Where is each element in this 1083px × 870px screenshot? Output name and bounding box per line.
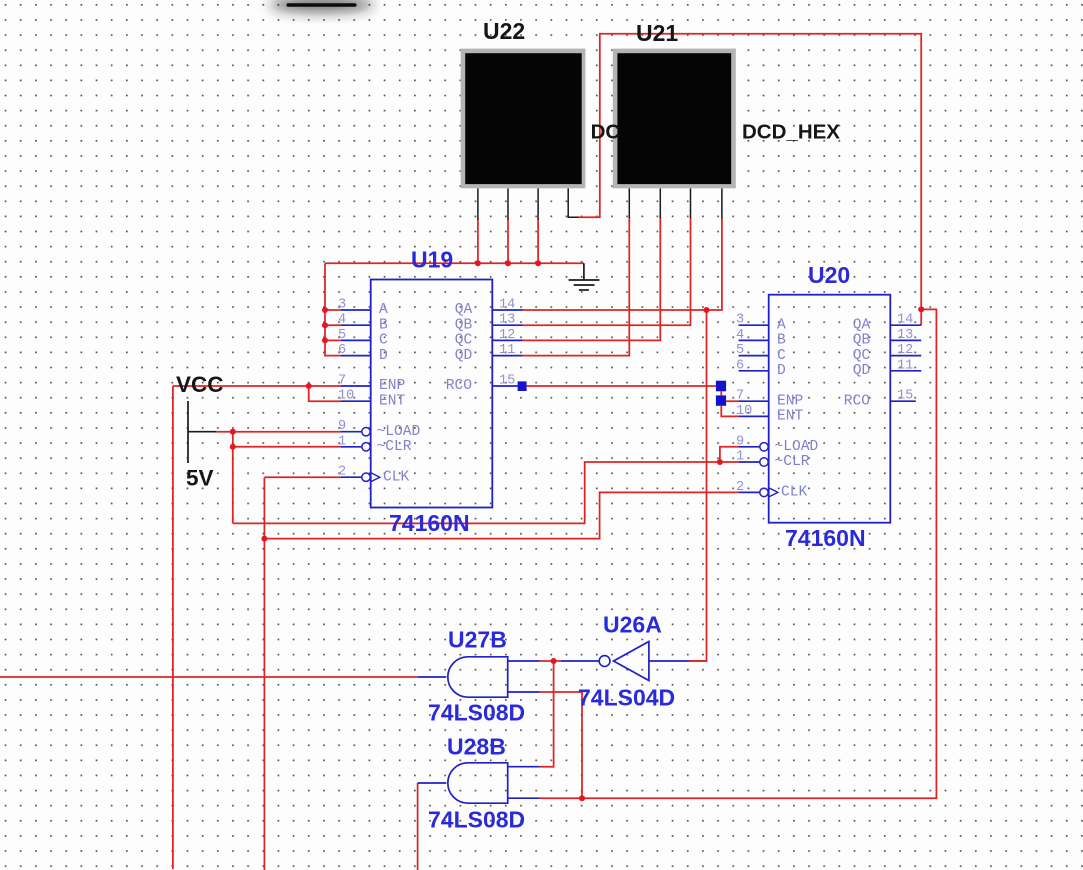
svg-text:6: 6: [338, 343, 346, 358]
svg-text:11: 11: [897, 358, 913, 373]
svg-text:11: 11: [499, 343, 515, 358]
U19 ~LOAD bubble: [362, 428, 370, 436]
U20 pin 10 ENT stub: [739, 415, 769, 417]
svg-text:7: 7: [338, 374, 346, 389]
svg-text:13: 13: [499, 313, 515, 328]
wire branch to U20 ~LOAD: [720, 447, 739, 462]
svg-text:14: 14: [499, 298, 515, 313]
svg-text:B: B: [379, 317, 388, 333]
counter U19 74160N body: [371, 280, 493, 508]
svg-text:QA: QA: [455, 302, 473, 318]
wire to U19 ~CLR: [233, 446, 341, 448]
U19 pin 5 C stub: [341, 339, 371, 341]
svg-text:15: 15: [499, 374, 515, 389]
junction U26A output node: [551, 658, 557, 664]
U20 pin 5 C stub: [739, 355, 769, 357]
U20 pin 1 ~CLR stub: [739, 461, 760, 463]
display U22 pin 1 lead: [477, 188, 479, 219]
wire U28B output down to bottom edge: [417, 783, 419, 870]
svg-text:5: 5: [338, 328, 346, 343]
svg-text:ENP: ENP: [777, 393, 803, 409]
svg-text:3: 3: [736, 313, 744, 328]
net connector square U20 lower: [716, 395, 726, 405]
svg-text:U27B: U27B: [448, 627, 507, 653]
svg-text:U21: U21: [636, 20, 678, 46]
svg-text:QA: QA: [853, 317, 871, 333]
svg-text:12: 12: [499, 328, 515, 343]
U19 pin 14 QA stub: [492, 309, 522, 311]
svg-text:13: 13: [897, 328, 913, 343]
svg-text:74160N: 74160N: [389, 510, 470, 536]
wire stub to U19 pin C: [325, 339, 341, 341]
svg-text:U19: U19: [411, 247, 453, 273]
svg-text:5V: 5V: [186, 466, 214, 491]
U19 pin 15 RCO stub: [492, 385, 518, 387]
display U22 pin 3 lead: [537, 188, 539, 219]
U19 pin 13 QB stub: [492, 324, 522, 326]
svg-text:A: A: [777, 317, 786, 333]
U19 pin 6 D stub: [341, 355, 371, 357]
U20 pin 7 ENP stub: [739, 400, 769, 402]
U19 pin 2 CLK stub: [341, 476, 362, 478]
svg-text:D: D: [379, 348, 388, 364]
inverter U26A body: [561, 642, 689, 681]
wire U22 pin4 over top to U20 QA: [578, 34, 921, 325]
svg-text:74LS04D: 74LS04D: [578, 685, 675, 711]
and-gate U28B body: [418, 763, 540, 803]
junction QA net branch: [704, 307, 710, 313]
wire branch right from node to lower bus: [540, 309, 937, 798]
junction U20 ~LOAD/~CLR feed: [717, 459, 723, 465]
and-gate U27B body: [418, 657, 540, 697]
net connector square U20 upper: [716, 381, 726, 392]
svg-text:ENT: ENT: [379, 393, 406, 409]
display U21 pin 4 lead: [721, 188, 723, 218]
wire branch to U19 ENT: [309, 386, 341, 401]
svg-text:B: B: [777, 333, 786, 349]
svg-text:74LS08D: 74LS08D: [428, 807, 525, 833]
svg-text:VCC: VCC: [176, 372, 224, 397]
svg-text:QD: QD: [853, 363, 871, 379]
display U22 pin 2 lead: [507, 188, 509, 219]
display U21 pin 3 lead: [690, 188, 692, 218]
wire U22 pin2 to ground bus: [507, 219, 509, 264]
wire U19 QB to U21 pin3: [523, 217, 691, 325]
wire CLK rail down: [263, 477, 265, 870]
ground symbol: [583, 263, 585, 280]
svg-text:4: 4: [338, 313, 346, 328]
U20 pin 12 QC stub: [890, 355, 921, 357]
U20 ~CLR bubble: [760, 458, 768, 466]
display U22 DCD_HEX body: [461, 49, 586, 189]
svg-text:74LS08D: 74LS08D: [428, 700, 525, 726]
svg-text:~CLR: ~CLR: [775, 454, 810, 470]
U20 CLK edge triangle: [769, 488, 778, 497]
wire connector square link: [720, 391, 722, 395]
U20 CLK bubble: [760, 488, 768, 496]
display U21 DCD_HEX body: [613, 49, 736, 189]
svg-text:C: C: [379, 333, 388, 349]
wire junction drop: [232, 432, 234, 524]
U19 pin 4 B stub: [341, 324, 371, 326]
display U21 pin 1 lead: [628, 188, 630, 218]
wire to U19 ~LOAD: [233, 431, 341, 433]
svg-text:7: 7: [736, 389, 744, 404]
junction U19 pin C: [322, 337, 328, 343]
svg-text:~LOAD: ~LOAD: [775, 439, 819, 455]
svg-text:4: 4: [736, 328, 744, 343]
U20 pin 6 D stub: [739, 370, 769, 372]
svg-text:DC: DC: [591, 121, 621, 144]
junction U19 pin A: [322, 307, 328, 313]
svg-text:3: 3: [338, 298, 346, 313]
wire U19 QA to U21 pin4: [523, 217, 722, 310]
U20 pin 3 A stub: [739, 324, 769, 326]
svg-text:D: D: [777, 363, 786, 379]
svg-text:1: 1: [338, 434, 346, 449]
wire VCC symbol to junction: [216, 431, 233, 433]
svg-text:5: 5: [736, 343, 744, 358]
junction U22 pin3/bus: [535, 260, 541, 266]
wire connector to U20 ENP: [726, 400, 739, 402]
wire U19 QC to U21 pin2: [523, 217, 661, 340]
svg-text:DCD_HEX: DCD_HEX: [742, 121, 840, 144]
svg-text:10: 10: [338, 389, 354, 404]
U20 pin 2 CLK stub: [739, 491, 760, 493]
junction CLK rail: [261, 536, 267, 542]
net connector square U19 RCO: [518, 381, 527, 391]
junction U22 pin1/bus: [475, 260, 481, 266]
U19 pin 11 QD stub: [492, 355, 522, 357]
svg-text:QC: QC: [853, 348, 871, 364]
U19 CLK bubble: [362, 473, 370, 481]
U20 pin 9 ~LOAD stub: [739, 446, 760, 448]
wire U19 QD to U21 pin1: [523, 217, 630, 355]
svg-text:QC: QC: [455, 333, 473, 349]
svg-text:2: 2: [736, 480, 744, 495]
U20 pin 4 B stub: [739, 339, 769, 341]
svg-text:14: 14: [897, 313, 913, 328]
svg-text:ENT: ENT: [777, 409, 804, 425]
counter U20 74160N body: [769, 295, 891, 523]
svg-text:6: 6: [736, 358, 744, 373]
svg-text:15: 15: [897, 389, 913, 404]
junction U22 pin2/bus: [505, 260, 511, 266]
junction U19 pin B: [322, 322, 328, 328]
wire CLK link to U20 CLK: [264, 492, 738, 538]
svg-text:U22: U22: [483, 18, 525, 44]
svg-text:74160N: 74160N: [785, 525, 866, 551]
junction VCC/~LOAD: [230, 429, 236, 435]
svg-text:RCO: RCO: [844, 393, 871, 409]
U20 pin 13 QB stub: [890, 339, 921, 341]
wire branch up to U27B input B: [540, 692, 582, 798]
U20 ~LOAD bubble: [760, 443, 768, 451]
svg-text:12: 12: [897, 343, 913, 358]
wire U19 RCO to U20 connector: [527, 385, 716, 387]
svg-text:CLK: CLK: [383, 469, 410, 485]
screen smudge artifact top: [270, 0, 374, 13]
svg-text:9: 9: [736, 434, 744, 449]
display U22 pin 4 lead: [568, 188, 578, 217]
VCC power symbol: [187, 401, 189, 463]
svg-text:QD: QD: [455, 348, 473, 364]
U20 pin 14 QA stub: [890, 324, 921, 326]
svg-text:CLK: CLK: [781, 485, 808, 501]
svg-text:A: A: [379, 302, 388, 318]
U19 pin 1 ~CLR stub: [341, 446, 362, 448]
wire to U19 CLK: [264, 476, 340, 478]
wire long run to U20 ~CLR: [233, 462, 739, 523]
svg-text:2: 2: [338, 465, 346, 480]
svg-text:U26A: U26A: [603, 612, 662, 638]
wire stub to U19 pin B: [325, 324, 341, 326]
wire U22 pin1 to ground bus: [477, 219, 479, 264]
wire QA branch down to U26A input: [689, 310, 706, 661]
svg-text:U20: U20: [808, 262, 850, 288]
U19 pin 3 A stub: [341, 309, 371, 311]
U19 pin 12 QC stub: [492, 339, 522, 341]
junction top right node: [918, 306, 924, 312]
wire ground bus horizontal: [325, 262, 584, 264]
svg-text:~CLR: ~CLR: [377, 439, 412, 455]
U19 pin 7 ENP stub: [341, 385, 371, 387]
svg-text:9: 9: [338, 419, 346, 434]
svg-text:QB: QB: [455, 317, 473, 333]
svg-text:RCO: RCO: [446, 378, 473, 394]
U19 pin 10 ENT stub: [341, 400, 371, 402]
wire U22 pin3 to ground bus: [537, 219, 539, 264]
wire connector to U20 ENT: [721, 406, 738, 417]
U19 ~CLR bubble: [362, 443, 370, 451]
svg-text:U28B: U28B: [447, 734, 506, 760]
junction lower bus / U27B-B branch: [579, 795, 585, 801]
svg-text:QB: QB: [853, 333, 871, 349]
svg-text:~LOAD: ~LOAD: [377, 424, 421, 440]
junction VCC/~CLR: [230, 444, 236, 450]
svg-text:1: 1: [736, 450, 744, 465]
U20 pin 11 QD stub: [890, 370, 921, 372]
U19 pin 9 ~LOAD stub: [341, 431, 362, 433]
wire U26A output node segment: [540, 660, 561, 662]
U19 CLK edge triangle: [371, 473, 380, 482]
wire U26A input segment: [689, 660, 706, 662]
svg-text:C: C: [777, 348, 786, 364]
wire VCC rail down left side: [172, 386, 174, 869]
wire feed to U19 data pins: [325, 263, 341, 355]
wire VCC to U19 ENP: [173, 385, 341, 387]
display U21 pin 2 lead: [659, 188, 661, 218]
U20 pin 15 RCO stub: [890, 400, 916, 402]
svg-text:ENP: ENP: [379, 378, 405, 394]
wire node down to U28B input A: [540, 661, 554, 767]
wire stub to U19 pin A: [325, 309, 341, 311]
svg-text:10: 10: [736, 404, 752, 419]
wire U27B output to left edge: [0, 676, 418, 678]
junction VCC/ENT branch: [306, 383, 312, 389]
